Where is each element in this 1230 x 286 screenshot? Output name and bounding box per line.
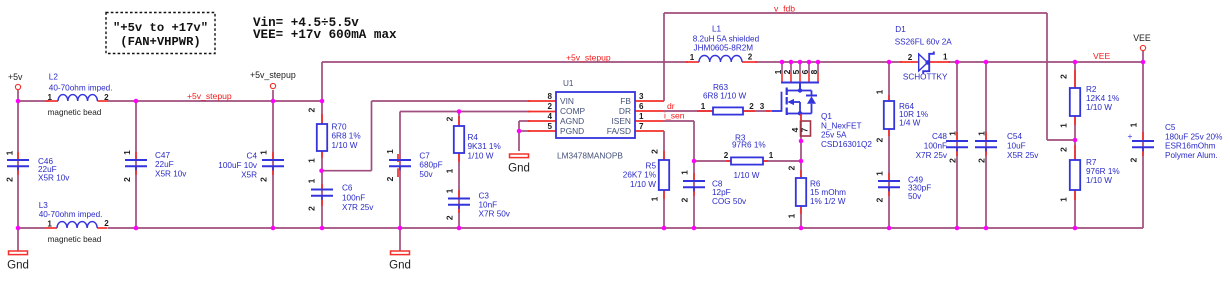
svg-text:2: 2: [445, 215, 455, 220]
svg-text:2: 2: [948, 158, 958, 163]
svg-text:1: 1: [948, 131, 958, 136]
svg-text:2: 2: [680, 197, 690, 202]
svg-text:SS26FL 60v 2A: SS26FL 60v 2A: [895, 38, 953, 47]
svg-text:Gnd: Gnd: [7, 260, 29, 272]
svg-text:2: 2: [445, 116, 455, 121]
svg-text:C3: C3: [479, 192, 490, 201]
svg-text:10uF: 10uF: [1007, 142, 1026, 151]
svg-text:C7: C7: [419, 151, 430, 160]
svg-text:1: 1: [1059, 197, 1069, 202]
svg-text:X5R 25v: X5R 25v: [1007, 151, 1039, 160]
svg-text:26K7 1%: 26K7 1%: [623, 171, 656, 180]
svg-text:12pF: 12pF: [712, 188, 731, 197]
svg-text:2: 2: [787, 165, 797, 170]
svg-text:SCHOTTKY: SCHOTTKY: [903, 72, 948, 81]
svg-text:1: 1: [875, 89, 885, 94]
svg-text:6R8 1/10 W: 6R8 1/10 W: [703, 92, 747, 101]
svg-text:dr: dr: [667, 101, 675, 111]
svg-text:1: 1: [47, 219, 52, 228]
svg-text:50v: 50v: [908, 192, 922, 201]
svg-text:1: 1: [307, 158, 317, 163]
svg-text:magnetic bead: magnetic bead: [48, 108, 102, 117]
svg-text:10nF: 10nF: [479, 200, 498, 209]
svg-text:1: 1: [650, 196, 660, 201]
svg-text:1: 1: [1129, 122, 1139, 127]
svg-text:40-70ohm imped.: 40-70ohm imped.: [49, 83, 113, 92]
svg-text:FA/SD: FA/SD: [607, 126, 631, 136]
svg-text:2: 2: [875, 137, 885, 142]
svg-text:1/10 W: 1/10 W: [734, 171, 760, 180]
svg-text:9K31 1%: 9K31 1%: [468, 142, 501, 151]
svg-text:1: 1: [977, 131, 987, 136]
svg-text:L3: L3: [39, 201, 49, 210]
svg-text:6R8 1%: 6R8 1%: [332, 132, 361, 141]
svg-text:FB: FB: [620, 96, 631, 106]
svg-text:VIN: VIN: [560, 96, 574, 106]
svg-text:2: 2: [259, 177, 269, 182]
svg-text:C6: C6: [342, 184, 353, 193]
svg-text:2: 2: [650, 149, 660, 154]
svg-text:1: 1: [787, 213, 797, 218]
svg-text:VEE: VEE: [1093, 51, 1110, 61]
svg-text:2: 2: [122, 177, 132, 182]
svg-text:+5v_stepup: +5v_stepup: [250, 70, 296, 80]
svg-text:2: 2: [547, 102, 552, 111]
svg-text:"+5v to +17v": "+5v to +17v": [113, 21, 208, 35]
svg-text:LM3478MANOPB: LM3478MANOPB: [557, 151, 623, 161]
svg-text:Polymer Alum.: Polymer Alum.: [1165, 151, 1218, 160]
svg-text:2: 2: [724, 151, 729, 160]
svg-text:v_fdb: v_fdb: [774, 4, 795, 14]
svg-text:(FAN+VHPWR): (FAN+VHPWR): [120, 35, 200, 49]
svg-text:R63: R63: [713, 83, 728, 92]
svg-text:PGND: PGND: [560, 126, 584, 136]
svg-text:X7R 25v: X7R 25v: [916, 151, 948, 160]
svg-text:1: 1: [680, 170, 690, 175]
svg-text:C47: C47: [155, 151, 170, 160]
svg-text:R70: R70: [332, 122, 347, 131]
svg-text:+: +: [1128, 131, 1133, 141]
svg-text:1: 1: [307, 178, 317, 183]
svg-text:CSD16301Q2: CSD16301Q2: [821, 140, 872, 149]
svg-text:1: 1: [690, 53, 695, 62]
svg-text:JHM0605-8R2M: JHM0605-8R2M: [694, 44, 754, 53]
svg-text:7: 7: [800, 127, 810, 132]
svg-text:1: 1: [445, 188, 455, 193]
svg-text:1: 1: [943, 53, 948, 62]
svg-text:4: 4: [547, 112, 552, 121]
svg-text:100nF: 100nF: [342, 193, 365, 202]
svg-text:COG 50v: COG 50v: [712, 197, 747, 206]
svg-text:2: 2: [977, 158, 987, 163]
svg-text:R2: R2: [1086, 85, 1097, 94]
svg-text:magnetic bead: magnetic bead: [48, 235, 102, 244]
svg-text:X5R 10v: X5R 10v: [38, 173, 70, 182]
svg-text:2: 2: [104, 93, 109, 102]
svg-text:X5R 10v: X5R 10v: [155, 169, 187, 178]
svg-text:C5: C5: [1165, 123, 1176, 132]
svg-text:1: 1: [639, 112, 644, 121]
svg-text:R5: R5: [646, 162, 657, 171]
svg-text:+5v_stepup: +5v_stepup: [187, 91, 232, 101]
svg-text:2: 2: [1129, 157, 1139, 162]
svg-text:5: 5: [547, 122, 552, 131]
svg-text:1: 1: [385, 149, 395, 154]
svg-text:2: 2: [748, 53, 753, 62]
svg-text:97R6 1%: 97R6 1%: [732, 141, 766, 150]
svg-text:2: 2: [104, 219, 109, 228]
svg-text:1/10 W: 1/10 W: [630, 180, 656, 189]
svg-text:25v 5A: 25v 5A: [821, 131, 847, 140]
svg-text:COMP: COMP: [560, 106, 586, 116]
svg-text:C48: C48: [932, 132, 947, 141]
svg-text:ESR16mOhm: ESR16mOhm: [1165, 142, 1216, 151]
svg-text:2: 2: [307, 206, 317, 211]
svg-text:R7: R7: [1086, 158, 1097, 167]
svg-text:C8: C8: [712, 180, 723, 189]
svg-text:15 mOhm: 15 mOhm: [810, 188, 846, 197]
svg-text:1/10 W: 1/10 W: [468, 151, 494, 160]
svg-text:1: 1: [769, 151, 774, 160]
svg-text:ISEN: ISEN: [611, 116, 631, 126]
svg-text:7: 7: [639, 122, 644, 131]
svg-text:1: 1: [5, 150, 15, 155]
svg-text:1: 1: [259, 150, 269, 155]
svg-text:R6: R6: [810, 180, 821, 189]
svg-text:100uF 10v: 100uF 10v: [218, 161, 258, 170]
svg-text:DR: DR: [619, 106, 631, 116]
svg-text:50v: 50v: [419, 170, 433, 179]
svg-text:2: 2: [307, 107, 317, 112]
svg-text:6: 6: [639, 102, 644, 111]
svg-text:1: 1: [122, 150, 132, 155]
svg-text:1: 1: [47, 93, 52, 102]
svg-text:2: 2: [749, 102, 754, 111]
svg-text:8.2uH 5A shielded: 8.2uH 5A shielded: [693, 35, 760, 44]
svg-text:3: 3: [760, 102, 765, 111]
svg-text:40-70ohm imped.: 40-70ohm imped.: [39, 210, 103, 219]
svg-text:U1: U1: [563, 79, 574, 88]
svg-text:1% 1/2 W: 1% 1/2 W: [810, 197, 846, 206]
svg-text:2: 2: [875, 197, 885, 202]
svg-text:Gnd: Gnd: [508, 163, 530, 175]
svg-text:2: 2: [1059, 147, 1069, 152]
svg-text:+5v_stepup: +5v_stepup: [566, 53, 611, 63]
svg-text:VEE= +17v 600mA max: VEE= +17v 600mA max: [253, 28, 397, 42]
svg-text:L2: L2: [49, 73, 59, 82]
svg-text:12K4 1%: 12K4 1%: [1086, 94, 1119, 103]
svg-text:1: 1: [701, 102, 706, 111]
svg-text:3: 3: [639, 92, 644, 101]
svg-text:X7R 50v: X7R 50v: [479, 209, 511, 218]
svg-text:X5R: X5R: [241, 171, 257, 180]
svg-text:D1: D1: [895, 25, 906, 34]
svg-text:VEE: VEE: [1133, 33, 1151, 43]
svg-text:L1: L1: [712, 24, 722, 33]
svg-text:i_sen: i_sen: [664, 111, 685, 121]
svg-text:X7R 25v: X7R 25v: [342, 203, 374, 212]
svg-text:1/4 W: 1/4 W: [899, 118, 921, 127]
svg-text:2: 2: [1059, 74, 1069, 79]
svg-text:AGND: AGND: [560, 116, 584, 126]
svg-text:8: 8: [809, 69, 819, 74]
svg-text:C4: C4: [247, 152, 258, 161]
svg-text:1: 1: [1059, 123, 1069, 128]
svg-text:2: 2: [385, 176, 395, 181]
svg-text:1/10 W: 1/10 W: [332, 141, 358, 150]
svg-text:1: 1: [445, 168, 455, 173]
svg-text:1/10 W: 1/10 W: [1086, 103, 1112, 112]
svg-text:180uF 25v 20%: 180uF 25v 20%: [1165, 132, 1222, 141]
svg-text:Q1: Q1: [821, 112, 832, 121]
svg-text:1: 1: [875, 171, 885, 176]
svg-text:Gnd: Gnd: [389, 260, 411, 272]
svg-text:680pF: 680pF: [419, 161, 442, 170]
svg-text:+5v: +5v: [8, 72, 23, 82]
svg-text:2: 2: [908, 53, 913, 62]
svg-text:22uF: 22uF: [155, 160, 174, 169]
svg-text:976R 1%: 976R 1%: [1086, 167, 1120, 176]
svg-text:C54: C54: [1007, 132, 1022, 141]
svg-text:8: 8: [547, 92, 552, 101]
svg-text:R4: R4: [468, 133, 479, 142]
svg-text:1/10 W: 1/10 W: [1086, 176, 1112, 185]
svg-text:100nF: 100nF: [924, 142, 947, 151]
svg-text:2: 2: [5, 177, 15, 182]
svg-text:N_NexFET: N_NexFET: [821, 121, 862, 130]
